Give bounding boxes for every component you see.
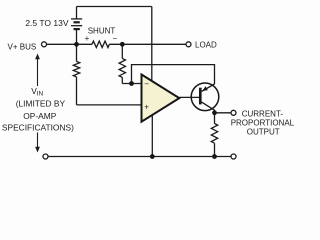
svg-text:SPECIFICATIONS): SPECIFICATIONS) <box>2 122 74 132</box>
wire op-amp V+ supply pin <box>151 7 153 83</box>
node collector output junction <box>212 110 217 115</box>
svg-text:+: + <box>144 102 149 111</box>
node shunt/load junction <box>120 42 125 47</box>
node bottom rail / R3 junction <box>212 154 217 159</box>
wire op-amp V- supply pin <box>151 112 153 157</box>
transistor Q1 base bar <box>199 88 202 105</box>
svg-text:OP-AMP: OP-AMP <box>23 111 56 121</box>
resistor R2 (shunt right side) leads <box>122 44 141 83</box>
svg-text:LOAD: LOAD <box>195 40 217 49</box>
wire op-amp output to base <box>179 96 199 98</box>
op-amp U1 <box>142 75 180 122</box>
wire output resistor leads <box>214 113 216 157</box>
wire shunt to load terminal <box>109 43 185 45</box>
transistor Q1 <box>191 83 219 113</box>
wire V+ bus from terminal to shunt <box>47 43 92 45</box>
node inverting input junction <box>129 81 134 86</box>
battery B1 plates <box>71 19 82 29</box>
wire feedback from inverting input to emitter <box>132 65 215 84</box>
node terminal V+ bus (open circle) <box>42 42 47 47</box>
resistor R3 (output) zigzag <box>211 124 217 144</box>
svg-text:(LIMITED BY: (LIMITED BY <box>16 99 66 109</box>
resistor R2 zigzag <box>119 58 125 77</box>
svg-text:PROPORTIONAL: PROPORTIONAL <box>231 119 295 128</box>
battery B1 top lead <box>76 7 78 19</box>
wire collector node to output terminal <box>215 112 231 114</box>
node terminal LOAD (open circle) <box>186 42 191 47</box>
svg-text:+: + <box>85 34 90 43</box>
svg-text:V+ BUS: V+ BUS <box>8 42 37 51</box>
svg-text:−: − <box>112 34 117 43</box>
svg-text:−: − <box>144 80 149 89</box>
wire bottom rail <box>48 156 230 158</box>
junction dots <box>74 42 217 159</box>
node terminal bottom-left (open circle) <box>43 154 48 159</box>
resistor SHUNT zigzag <box>92 41 109 47</box>
transistor Q1 collector <box>202 102 215 113</box>
svg-text:CURRENT-: CURRENT- <box>242 109 284 118</box>
node terminal bottom-right (open circle) <box>231 154 236 159</box>
node bottom rail / op-amp V- junction <box>150 154 155 159</box>
wire top rail <box>77 6 152 8</box>
svg-text:2.5 TO 13V: 2.5 TO 13V <box>25 18 68 28</box>
annotation arrow Vin up <box>35 54 40 87</box>
node battery/bus junction <box>74 42 79 47</box>
transistor Q1 emitter arrow (PNP) <box>202 86 208 91</box>
node terminal CURRENT-PROPORTIONAL OUTPUT (open circle) <box>231 110 236 115</box>
transistor Q1 emitter <box>202 84 215 91</box>
resistor R1 (battery side) leads <box>77 44 142 105</box>
resistor R1 zigzag <box>73 61 79 76</box>
battery B1 bottom lead <box>76 29 78 44</box>
svg-text:SHUNT: SHUNT <box>88 27 116 36</box>
annotation arrow Vin down <box>35 133 40 153</box>
svg-text:OUTPUT: OUTPUT <box>247 128 280 137</box>
